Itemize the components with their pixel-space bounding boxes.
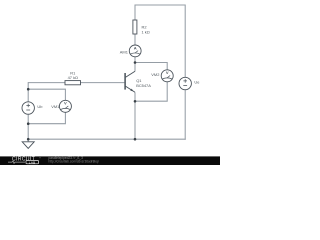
- svg-text:AM1: AM1: [120, 49, 128, 54]
- svg-text:VM2: VM2: [151, 72, 159, 77]
- svg-text:47 kΩ: 47 kΩ: [68, 75, 78, 80]
- svg-text:Ub: Ub: [37, 104, 43, 109]
- svg-text:http://circuitlab.com/c6vzr36a: http://circuitlab.com/c6vzr36adr8kqr: [49, 159, 100, 163]
- svg-text:A: A: [134, 45, 137, 50]
- svg-text:BC547A: BC547A: [136, 83, 151, 88]
- svg-text:V: V: [166, 70, 169, 75]
- svg-text:VM1: VM1: [51, 104, 59, 109]
- svg-text:1 kΩ: 1 kΩ: [142, 30, 150, 35]
- svg-text:LAB: LAB: [29, 160, 36, 164]
- svg-text:Ue: Ue: [194, 80, 200, 85]
- svg-text:V: V: [64, 101, 67, 106]
